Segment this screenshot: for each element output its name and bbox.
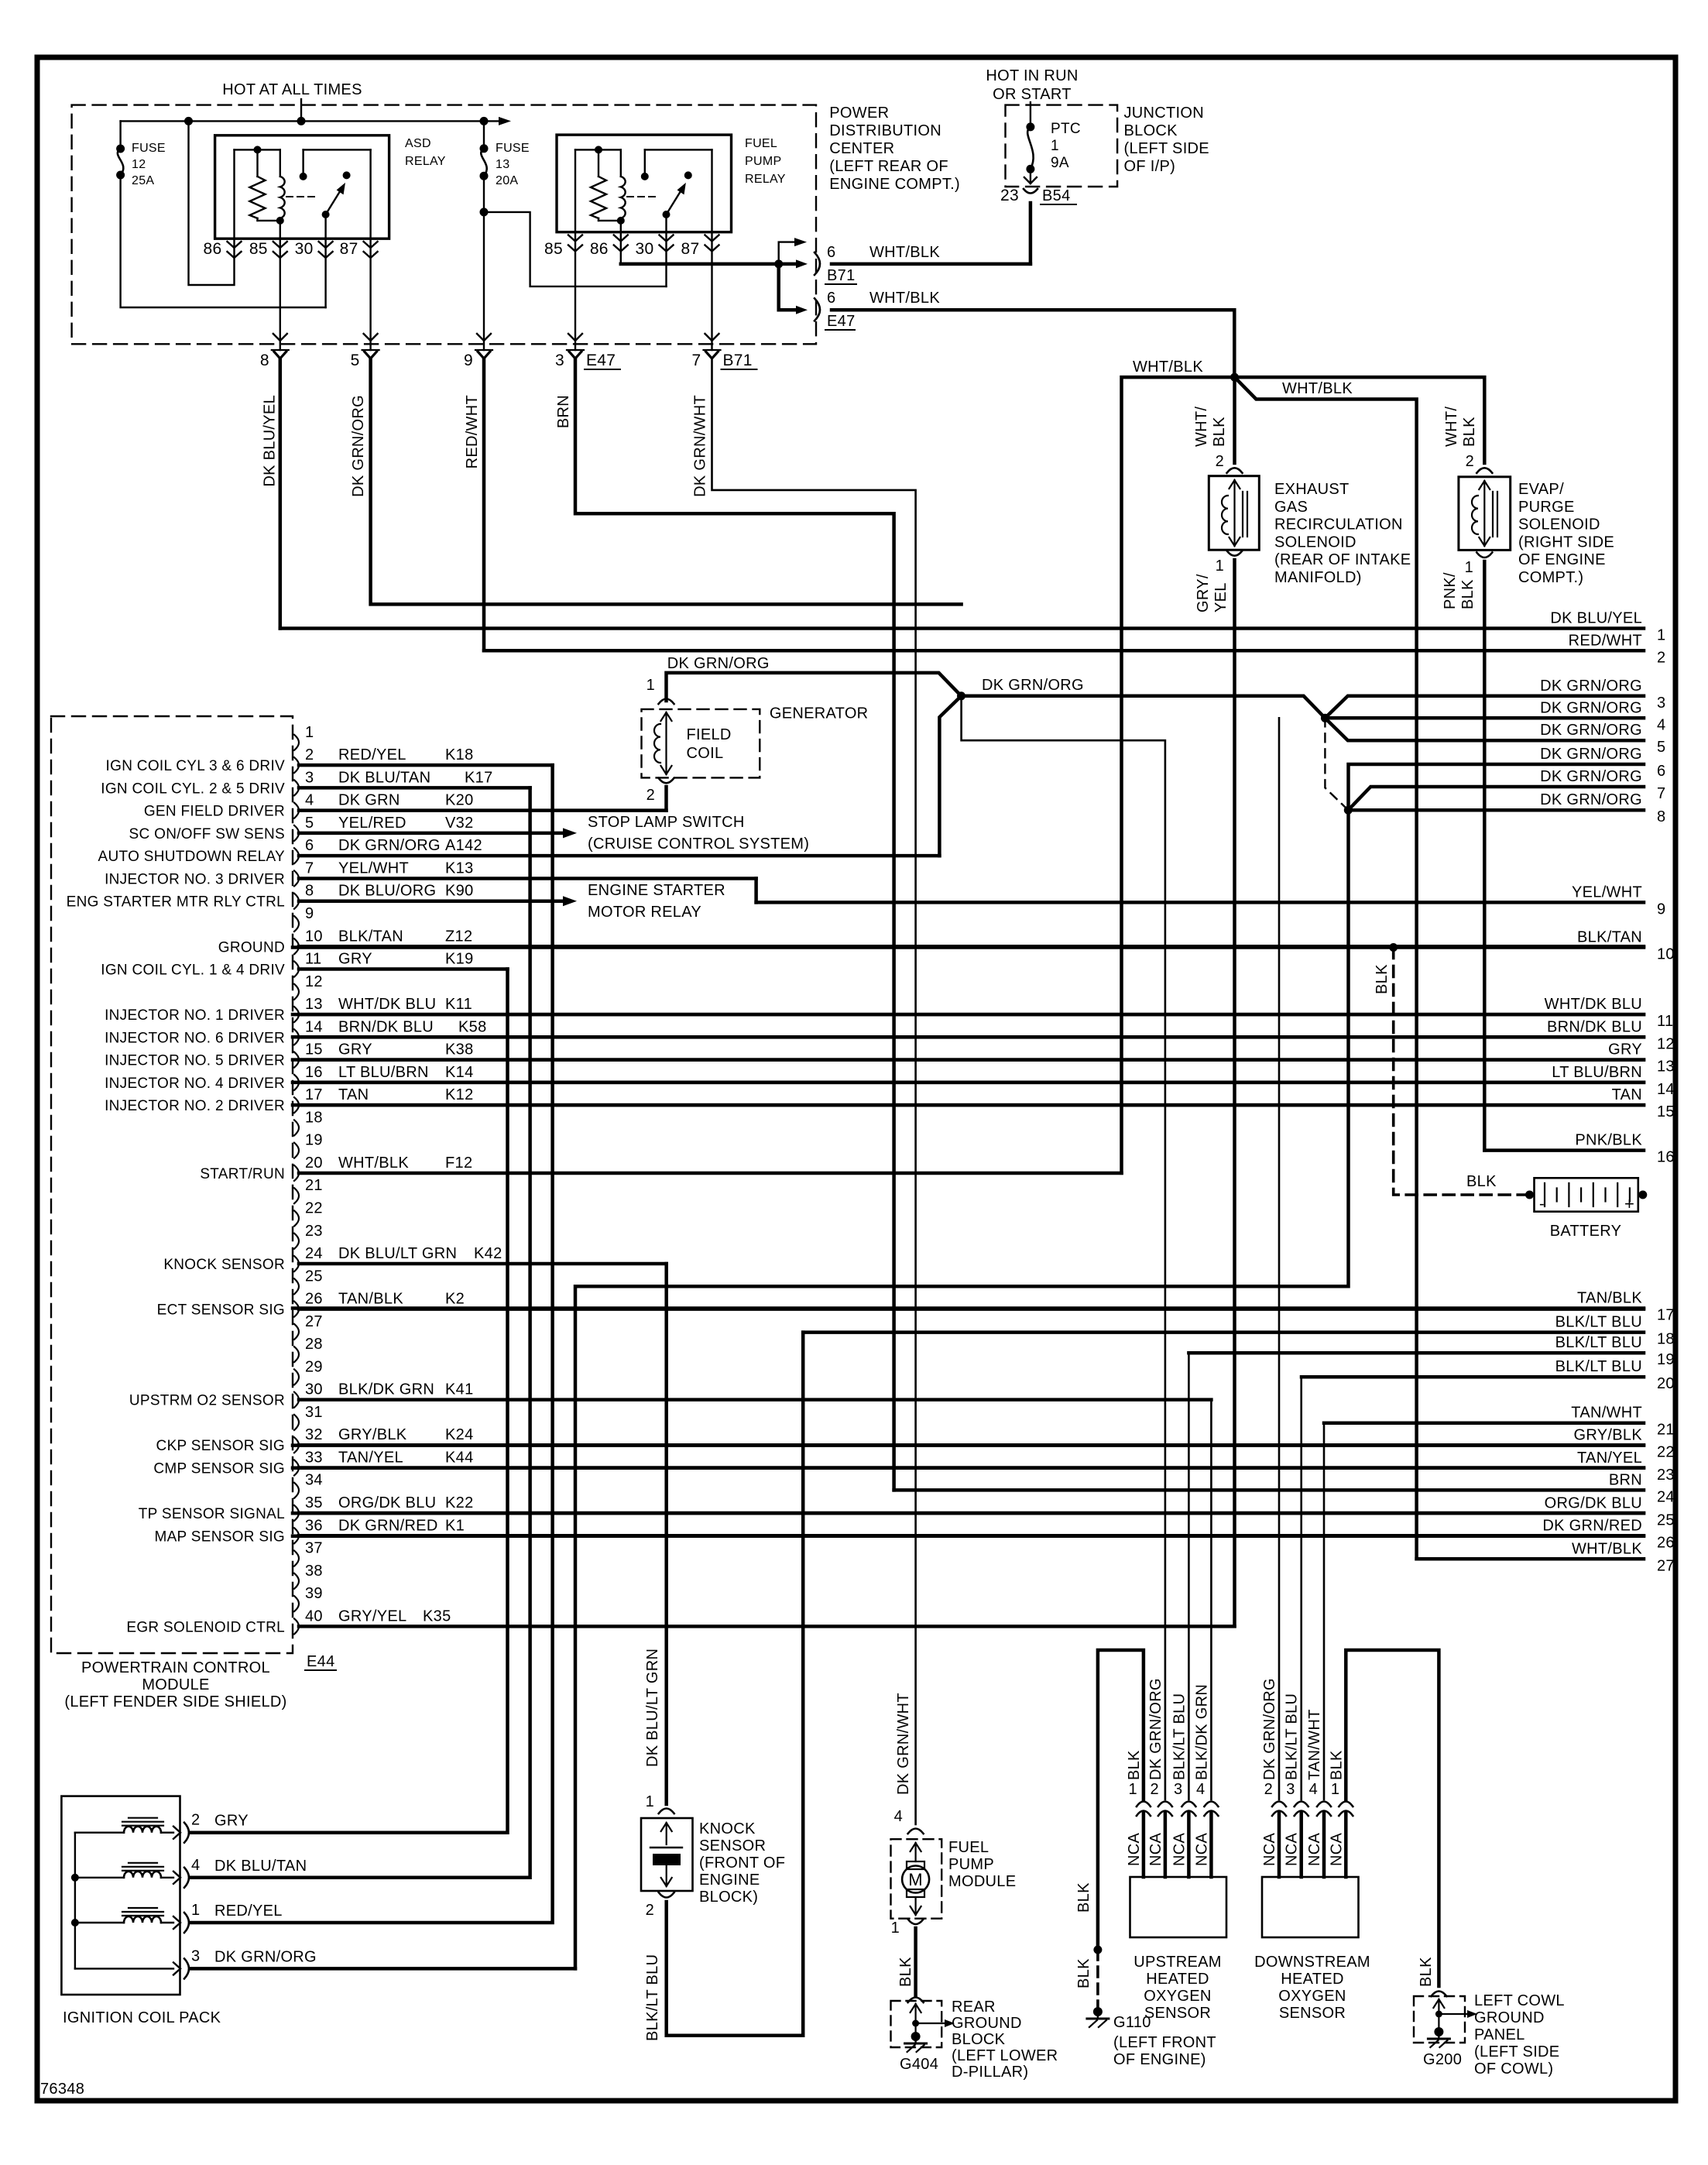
svg-text:(LEFT LOWER: (LEFT LOWER <box>952 2047 1058 2064</box>
svg-text:25: 25 <box>305 1268 323 1285</box>
PDC exit connector 7 <box>704 349 721 351</box>
svg-text:3: 3 <box>305 769 314 786</box>
wire row 10 BLK/TAN <box>293 945 1644 949</box>
wire WHT/BLK diag branch <box>1235 377 1417 1559</box>
fuel pump connector pin4 <box>908 1829 924 1834</box>
svg-text:GEN FIELD DRIVER: GEN FIELD DRIVER <box>144 804 285 820</box>
svg-text:DK BLU/YEL: DK BLU/YEL <box>262 395 279 487</box>
junction row10 BLK <box>1389 943 1398 952</box>
svg-text:BLK/LT BLU: BLK/LT BLU <box>1284 1693 1301 1780</box>
PCM pin 5 V32 <box>294 825 299 841</box>
svg-text:PURGE: PURGE <box>1518 499 1575 516</box>
svg-text:GRY: GRY <box>338 1041 372 1058</box>
svg-text:BLK: BLK <box>1461 417 1478 447</box>
svg-text:35: 35 <box>305 1494 323 1511</box>
junction C DK GRN/ORG <box>1344 806 1353 815</box>
PTC 1 element <box>1026 122 1034 131</box>
svg-text:V32: V32 <box>445 815 474 832</box>
PCM pin 35 K22 <box>294 1505 299 1521</box>
svg-text:DK GRN/WHT: DK GRN/WHT <box>895 1693 912 1795</box>
asd relay pin 87 chevrons <box>364 242 378 248</box>
svg-text:INJECTOR NO. 3 DRIVER: INJECTOR NO. 3 DRIVER <box>105 871 285 887</box>
svg-text:DK GRN/WHT: DK GRN/WHT <box>692 395 709 497</box>
svg-text:+: + <box>1624 1194 1634 1213</box>
svg-text:21: 21 <box>1657 1422 1675 1439</box>
svg-text:23: 23 <box>1657 1467 1675 1484</box>
PCM pin 22 <box>294 1211 299 1227</box>
svg-text:2: 2 <box>1264 1781 1273 1798</box>
svg-text:9: 9 <box>464 352 473 369</box>
svg-text:HOT IN RUN: HOT IN RUN <box>986 67 1078 84</box>
PCM pin 11 K19 <box>294 962 299 977</box>
PCM pin 6 A142 <box>294 848 299 863</box>
junction block dashed box <box>1006 105 1118 187</box>
asd relay pin 30 chevrons <box>319 242 333 248</box>
svg-text:BLK: BLK <box>1126 1750 1143 1780</box>
wire dotA to row6 <box>939 696 961 856</box>
bus wire hot feed <box>300 99 302 121</box>
ignition coil 4 <box>75 1877 124 1879</box>
wire WHT/BLK egr drop <box>1233 377 1236 463</box>
wire dotC row7 <box>1348 787 1644 810</box>
EVAP connector pin1 <box>1476 553 1492 558</box>
svg-text:WHT/DK BLU: WHT/DK BLU <box>1545 996 1642 1013</box>
PCM pin 30 K41 <box>294 1392 299 1408</box>
svg-text:OF ENGINE: OF ENGINE <box>1518 551 1606 568</box>
svg-text:B71: B71 <box>723 352 753 369</box>
svg-text:1: 1 <box>1051 138 1059 154</box>
svg-text:ENGINE STARTER: ENGINE STARTER <box>588 882 725 899</box>
wire fuel pin85 exit 3 <box>574 232 576 350</box>
wire row 18 BLK/LT BLU <box>803 1330 1644 1334</box>
svg-text:DK GRN/ORG: DK GRN/ORG <box>1540 678 1642 695</box>
svg-text:2: 2 <box>1657 649 1665 666</box>
svg-text:19: 19 <box>305 1132 323 1149</box>
svg-text:39: 39 <box>305 1585 323 1602</box>
EGR connector pin2 <box>1227 468 1243 473</box>
svg-text:D-PILLAR): D-PILLAR) <box>952 2064 1028 2081</box>
svg-text:21: 21 <box>305 1177 323 1194</box>
svg-text:76348: 76348 <box>40 2081 84 2098</box>
svg-text:INJECTOR NO. 6 DRIVER: INJECTOR NO. 6 DRIVER <box>105 1030 285 1046</box>
svg-text:RELAY: RELAY <box>405 155 446 168</box>
svg-text:17: 17 <box>1657 1307 1675 1324</box>
svg-text:NCA: NCA <box>1284 1833 1301 1866</box>
PCM pin 19 <box>294 1143 299 1158</box>
svg-text:ENG STARTER MTR RLY CTRL: ENG STARTER MTR RLY CTRL <box>67 894 285 911</box>
svg-text:18: 18 <box>1657 1331 1675 1348</box>
junction fuse13 <box>480 208 489 216</box>
svg-text:87: 87 <box>681 240 700 258</box>
svg-text:K17: K17 <box>465 769 493 786</box>
svg-text:8: 8 <box>260 352 269 369</box>
junction bus-hot <box>297 117 306 125</box>
wire row6 from coil3 <box>575 764 1644 1968</box>
wire row 25 ORG/DK BLU <box>293 1511 1644 1515</box>
svg-text:CMP SENSOR SIG: CMP SENSOR SIG <box>153 1460 285 1477</box>
svg-text:9: 9 <box>1657 901 1665 918</box>
svg-text:INJECTOR NO. 1 DRIVER: INJECTOR NO. 1 DRIVER <box>105 1007 285 1024</box>
wire PNK/BLK <box>1483 561 1487 1151</box>
svg-text:GRY/YEL: GRY/YEL <box>338 1607 406 1625</box>
wire DK BLU/YEL trunk <box>279 359 283 629</box>
PCM pin 18 <box>294 1120 299 1135</box>
svg-text:DK GRN/RED: DK GRN/RED <box>338 1517 438 1534</box>
svg-text:RELAY: RELAY <box>745 173 786 186</box>
svg-text:ASD: ASD <box>405 137 431 150</box>
fuel relay pin 87 chevrons <box>705 235 719 242</box>
knock connector pin1 <box>659 1809 674 1814</box>
knock sensor box <box>641 1818 693 1891</box>
svg-text:29: 29 <box>305 1358 323 1375</box>
wire fuel pump pin1 <box>914 1928 917 1996</box>
svg-text:14: 14 <box>305 1018 323 1035</box>
PCM pin 15 K38 <box>294 1052 299 1068</box>
svg-text:25A: 25A <box>132 174 154 187</box>
svg-text:DOWNSTREAM: DOWNSTREAM <box>1254 1954 1370 1971</box>
wire dotB row4 <box>1325 716 1644 720</box>
svg-text:BLOCK: BLOCK <box>1124 122 1178 139</box>
svg-text:B71: B71 <box>827 267 856 284</box>
svg-text:4: 4 <box>305 792 314 809</box>
svg-text:REAR: REAR <box>952 1999 996 2016</box>
coil pack output 1 RED/YEL <box>173 1916 180 1929</box>
svg-text:SENSOR: SENSOR <box>1144 2005 1211 2022</box>
wire BRN trunk <box>575 359 894 1490</box>
svg-text:E47: E47 <box>586 352 616 369</box>
svg-text:WHT/: WHT/ <box>1193 407 1210 447</box>
wire fuse12 to pin30 <box>121 175 326 307</box>
svg-text:2: 2 <box>191 1812 200 1829</box>
svg-text:86: 86 <box>204 240 222 258</box>
svg-text:RED/YEL: RED/YEL <box>338 746 406 763</box>
svg-text:NCA: NCA <box>1171 1833 1188 1866</box>
PCM pin 9 <box>294 916 299 932</box>
coil pack output 4 DK BLU/TAN <box>173 1872 180 1884</box>
svg-text:EGR SOLENOID CTRL: EGR SOLENOID CTRL <box>126 1619 285 1635</box>
svg-text:SOLENOID: SOLENOID <box>1518 516 1600 534</box>
wire dotB row3 <box>1325 696 1644 719</box>
svg-text:IGN COIL CYL 3 & 6 DRIV: IGN COIL CYL 3 & 6 DRIV <box>106 758 285 774</box>
svg-text:BLK/LT BLU: BLK/LT BLU <box>644 1954 661 2041</box>
svg-text:13: 13 <box>305 996 323 1013</box>
junction WHT/BLK <box>1230 373 1239 382</box>
PCM pin 29 <box>294 1369 299 1384</box>
EGR solenoid internals <box>1233 480 1235 546</box>
wire row 27 WHT/BLK <box>1417 1557 1644 1561</box>
wire hot to PTC <box>1030 102 1031 127</box>
svg-text:2: 2 <box>1150 1781 1158 1798</box>
connector B71-6 arrow <box>796 259 808 268</box>
svg-text:DK GRN/ORG: DK GRN/ORG <box>1147 1678 1164 1780</box>
svg-text:30: 30 <box>305 1381 323 1398</box>
left cowl ground panel G200 box <box>1414 1996 1465 2043</box>
PCM pin 24 K42 <box>294 1256 299 1271</box>
svg-text:LT BLU/BRN: LT BLU/BRN <box>1552 1064 1642 1081</box>
svg-text:PUMP: PUMP <box>948 1856 994 1873</box>
svg-text:22: 22 <box>1657 1444 1675 1461</box>
svg-text:20A: 20A <box>496 174 518 187</box>
svg-text:DK GRN/ORG: DK GRN/ORG <box>1540 722 1642 739</box>
svg-text:K18: K18 <box>445 746 474 763</box>
svg-text:12: 12 <box>132 158 146 171</box>
svg-text:ORG/DK BLU: ORG/DK BLU <box>1545 1494 1642 1511</box>
junction bus-asd <box>184 117 193 125</box>
svg-text:17: 17 <box>305 1086 323 1103</box>
svg-text:85: 85 <box>249 240 268 258</box>
wire upstream o2 pin3 feed <box>1188 1353 1190 1800</box>
PCM pin 31 <box>294 1415 299 1430</box>
PCM pin 3 K17 <box>294 780 299 795</box>
svg-text:FIELD: FIELD <box>687 726 732 743</box>
svg-text:PANEL: PANEL <box>1474 2026 1525 2043</box>
svg-text:RED/WHT: RED/WHT <box>1569 632 1642 649</box>
knock connector pin2 <box>659 1892 674 1898</box>
svg-text:BRN/DK BLU: BRN/DK BLU <box>338 1018 434 1035</box>
coil pack return wire <box>75 1968 173 1969</box>
PCM pin 23 <box>294 1233 299 1249</box>
svg-text:GAS: GAS <box>1274 499 1308 516</box>
svg-text:BLOCK): BLOCK) <box>699 1889 758 1906</box>
wire row 21 TAN/WHT <box>1324 1421 1644 1425</box>
svg-text:(FRONT OF: (FRONT OF <box>699 1854 785 1872</box>
wire asd pin87 exit 5 <box>369 238 371 350</box>
svg-text:DK GRN/ORG: DK GRN/ORG <box>982 677 1084 694</box>
junction A DK GRN/ORG <box>957 691 965 700</box>
EGR connector pin1 <box>1227 551 1243 556</box>
svg-text:BLK: BLK <box>1075 1882 1092 1913</box>
asd relay box <box>215 136 389 238</box>
wire row 9 YEL/WHT <box>756 901 1644 904</box>
wire gen pin2 <box>664 787 668 811</box>
PCM pin 14 K58 <box>294 1029 299 1045</box>
svg-text:MODULE: MODULE <box>948 1873 1016 1890</box>
wire row 16 PNK/BLK <box>1484 1148 1644 1152</box>
svg-text:INJECTOR NO. 4 DRIVER: INJECTOR NO. 4 DRIVER <box>105 1076 285 1092</box>
PCM pin 10 Z12 <box>294 938 299 954</box>
svg-text:9: 9 <box>305 905 314 922</box>
svg-text:G110: G110 <box>1113 2014 1151 2031</box>
svg-text:K20: K20 <box>445 792 474 809</box>
svg-text:YEL: YEL <box>1212 582 1230 612</box>
svg-text:-: - <box>1539 1196 1545 1213</box>
svg-text:FUSE: FUSE <box>496 142 530 155</box>
wire row 11 WHT/DK BLU <box>293 1013 1644 1017</box>
svg-text:DK GRN/ORG: DK GRN/ORG <box>338 837 441 854</box>
svg-text:WHT/DK BLU: WHT/DK BLU <box>338 996 436 1013</box>
wire GRY/YEL <box>1233 560 1236 1626</box>
svg-text:RECIRCULATION: RECIRCULATION <box>1274 516 1403 534</box>
wire dotA down branch <box>962 696 1165 1800</box>
svg-text:BRN: BRN <box>555 395 572 428</box>
svg-text:HOT AT ALL TIMES: HOT AT ALL TIMES <box>222 81 362 98</box>
svg-text:1: 1 <box>1128 1781 1137 1798</box>
battery terminals <box>1525 1191 1534 1199</box>
wire row 17 TAN/BLK <box>293 1306 1644 1310</box>
PCM pin 40 K35 <box>294 1618 299 1634</box>
svg-text:TAN/YEL: TAN/YEL <box>338 1449 403 1466</box>
svg-text:13: 13 <box>1657 1058 1675 1076</box>
wire row 20 BLK/LT BLU <box>1302 1375 1644 1379</box>
wire downstream o2 pin2 feed <box>1278 718 1281 1800</box>
PCM pin 32 K24 <box>294 1437 299 1453</box>
svg-text:(CRUISE CONTROL SYSTEM): (CRUISE CONTROL SYSTEM) <box>588 835 809 853</box>
svg-text:DK BLU/TAN: DK BLU/TAN <box>214 1858 307 1875</box>
svg-text:OF ENGINE): OF ENGINE) <box>1113 2051 1206 2068</box>
battery box <box>1535 1178 1638 1211</box>
wire fuel pin30 <box>665 232 667 286</box>
svg-text:BLK/LT BLU: BLK/LT BLU <box>1555 1334 1642 1351</box>
svg-text:IGNITION COIL PACK: IGNITION COIL PACK <box>63 2009 221 2026</box>
svg-text:GRY: GRY <box>214 1813 249 1830</box>
wire row 12 BRN/DK BLU <box>293 1035 1644 1039</box>
svg-text:26: 26 <box>305 1291 323 1308</box>
svg-text:BLK/TAN: BLK/TAN <box>1577 929 1642 946</box>
svg-text:DK GRN/RED: DK GRN/RED <box>1542 1518 1642 1535</box>
wire downstream BLK loop <box>1346 1650 1439 1986</box>
svg-text:POWER: POWER <box>829 105 889 122</box>
svg-text:LT BLU/BRN: LT BLU/BRN <box>338 1064 429 1081</box>
svg-text:DK BLU/LT GRN: DK BLU/LT GRN <box>644 1649 661 1767</box>
svg-text:15: 15 <box>1657 1103 1675 1120</box>
svg-text:ENGINE: ENGINE <box>699 1872 760 1889</box>
svg-text:6: 6 <box>827 244 835 261</box>
svg-text:OXYGEN: OXYGEN <box>1144 1988 1211 2005</box>
svg-text:IGN COIL CYL. 1 & 4 DRIV: IGN COIL CYL. 1 & 4 DRIV <box>101 962 285 979</box>
generator dashed box <box>642 709 760 778</box>
wire dotC row8 <box>1348 808 1644 812</box>
svg-text:GRY/: GRY/ <box>1195 574 1212 612</box>
bus wire <box>121 120 499 122</box>
svg-text:(LEFT FENDER SIDE SHIELD): (LEFT FENDER SIDE SHIELD) <box>64 1693 286 1710</box>
svg-text:E47: E47 <box>827 313 856 330</box>
svg-text:24: 24 <box>305 1245 323 1262</box>
svg-text:START/RUN: START/RUN <box>200 1166 285 1182</box>
svg-text:1: 1 <box>1216 558 1224 575</box>
svg-text:6: 6 <box>827 290 835 307</box>
svg-text:38: 38 <box>305 1563 323 1580</box>
gen connector pin1 <box>659 699 674 705</box>
wire row 13 GRY <box>293 1058 1644 1062</box>
svg-text:BLK/LT BLU: BLK/LT BLU <box>1555 1358 1642 1375</box>
knock sensor internals <box>666 1823 667 1844</box>
wire fuel pin86 output <box>620 232 622 264</box>
PCM pin 37 <box>294 1551 299 1566</box>
svg-text:20: 20 <box>305 1155 323 1172</box>
wire row 26 DK GRN/RED <box>293 1534 1644 1538</box>
svg-text:30: 30 <box>295 240 314 258</box>
svg-text:MODULE: MODULE <box>142 1676 209 1693</box>
svg-text:K22: K22 <box>445 1494 474 1511</box>
svg-text:K11: K11 <box>445 996 472 1013</box>
fuel relay dashed link <box>627 196 658 197</box>
PCM pin 38 <box>294 1573 299 1589</box>
svg-text:CENTER: CENTER <box>829 140 894 157</box>
svg-text:TAN: TAN <box>1612 1086 1642 1103</box>
svg-text:2: 2 <box>647 787 655 804</box>
svg-text:5: 5 <box>1657 739 1665 756</box>
svg-text:DK BLU/ORG: DK BLU/ORG <box>338 883 436 900</box>
svg-text:OF COWL): OF COWL) <box>1474 2060 1553 2078</box>
svg-text:TAN/BLK: TAN/BLK <box>1577 1290 1642 1307</box>
svg-text:DK GRN/ORG: DK GRN/ORG <box>350 395 367 497</box>
wire row 23 TAN/YEL <box>293 1467 1644 1470</box>
coil pack output 2 GRY <box>173 1827 180 1839</box>
EVAP solenoid box <box>1459 477 1511 551</box>
svg-text:4: 4 <box>191 1857 200 1874</box>
wire DK GRN/ORG trunk pin5 <box>371 359 962 604</box>
svg-text:WHT/BLK: WHT/BLK <box>1282 380 1353 397</box>
svg-text:DK GRN/ORG: DK GRN/ORG <box>1540 791 1642 808</box>
PCM pin 16 K14 <box>294 1075 299 1090</box>
svg-text:GRY/BLK: GRY/BLK <box>1574 1427 1643 1444</box>
svg-text:DK GRN/ORG: DK GRN/ORG <box>1540 746 1642 763</box>
svg-text:87: 87 <box>340 240 358 258</box>
svg-text:2: 2 <box>1466 453 1474 470</box>
svg-text:23: 23 <box>305 1223 323 1240</box>
svg-text:3: 3 <box>1657 695 1665 712</box>
svg-text:PNK/: PNK/ <box>1442 572 1459 609</box>
svg-text:WHT/: WHT/ <box>1443 407 1460 447</box>
svg-text:WHT/BLK: WHT/BLK <box>338 1155 409 1172</box>
svg-text:YEL/RED: YEL/RED <box>338 815 406 832</box>
svg-text:WHT/BLK: WHT/BLK <box>1572 1540 1642 1557</box>
svg-text:KNOCK SENSOR: KNOCK SENSOR <box>163 1257 285 1273</box>
wire row 15 TAN <box>293 1103 1644 1107</box>
PCM pin 12 <box>294 984 299 1000</box>
junction B DK GRN/ORG <box>1321 714 1329 722</box>
PCM pin 1 <box>294 735 299 750</box>
svg-text:GENERATOR: GENERATOR <box>770 705 869 722</box>
svg-text:3: 3 <box>191 1947 200 1964</box>
svg-text:LEFT COWL: LEFT COWL <box>1474 1992 1565 2009</box>
svg-text:GRY: GRY <box>338 951 372 968</box>
svg-text:4: 4 <box>1196 1781 1205 1798</box>
svg-text:(REAR OF INTAKE: (REAR OF INTAKE <box>1274 551 1411 568</box>
svg-text:NCA: NCA <box>1328 1833 1345 1866</box>
svg-text:DK GRN: DK GRN <box>338 792 400 809</box>
svg-text:30: 30 <box>636 240 654 258</box>
wire PTC out <box>1030 169 1031 184</box>
PCM pin 39 <box>294 1596 299 1611</box>
svg-text:GROUND: GROUND <box>952 2015 1022 2032</box>
wire fuse13 exit 9 <box>483 212 485 350</box>
svg-text:K90: K90 <box>445 883 474 900</box>
svg-text:G404: G404 <box>900 2056 938 2073</box>
svg-text:FUEL: FUEL <box>948 1839 989 1856</box>
svg-text:PUMP: PUMP <box>745 155 781 168</box>
svg-text:2: 2 <box>305 746 314 763</box>
asd relay pin 86 chevrons <box>228 242 242 248</box>
svg-text:TAN: TAN <box>338 1086 369 1103</box>
svg-text:(LEFT FRONT: (LEFT FRONT <box>1113 2034 1216 2051</box>
svg-text:16: 16 <box>1657 1149 1675 1166</box>
wire row 22 GRY/BLK <box>293 1443 1644 1447</box>
wire downstream o2 pin4 feed <box>1323 1423 1326 1800</box>
svg-text:31: 31 <box>305 1404 323 1421</box>
svg-text:MAP SENSOR SIG: MAP SENSOR SIG <box>154 1529 285 1545</box>
svg-text:AUTO SHUTDOWN RELAY: AUTO SHUTDOWN RELAY <box>98 849 285 865</box>
svg-text:(LEFT SIDE: (LEFT SIDE <box>1124 140 1209 157</box>
svg-text:STOP LAMP SWITCH: STOP LAMP SWITCH <box>588 814 745 831</box>
PCM pin 26 K2 <box>294 1302 299 1317</box>
ignition coil 1 <box>75 1922 124 1923</box>
fuel relay coil <box>574 149 576 232</box>
svg-text:YEL/WHT: YEL/WHT <box>1572 883 1642 901</box>
G200 internals <box>1438 1999 1439 2032</box>
fuse F13 <box>480 144 489 153</box>
asd relay dashed link <box>286 196 317 197</box>
